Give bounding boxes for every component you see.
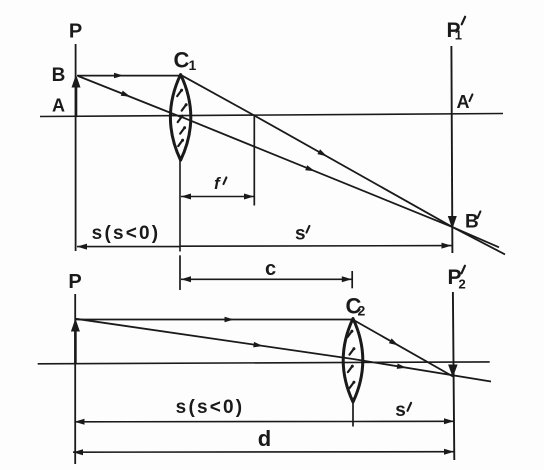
dimension line s (s<0) top <box>77 244 180 250</box>
ray 2 central segment object to lens C2 centre <box>76 319 353 359</box>
ray 2 central continuing past image point <box>353 359 491 382</box>
dimension line f-prime <box>181 194 254 200</box>
dimension line s (s<0) bottom <box>75 419 353 425</box>
image arrowhead at B2-prime (pointing down) <box>448 365 458 378</box>
svg-text:P: P <box>68 271 81 293</box>
optical axis (top diagram) <box>40 114 503 117</box>
ray 2 central segment B to lens centre (top) <box>78 76 181 117</box>
lens C1 (converging lens) <box>170 75 190 161</box>
dimension line s-prime top <box>181 243 452 249</box>
focal point tick F-prime <box>253 116 255 206</box>
image plane vertical line P1-prime <box>451 46 452 253</box>
dimension tick at lens C2 for c <box>351 271 353 288</box>
lens C2 (converging lens) <box>343 319 363 403</box>
svg-text:d: d <box>258 426 271 451</box>
svg-text:c: c <box>265 258 276 280</box>
label P1-prime <box>447 17 466 43</box>
svg-text:A: A <box>52 96 65 116</box>
svg-text:B: B <box>52 65 66 86</box>
svg-text:s: s <box>295 224 306 245</box>
svg-text:s: s <box>395 400 406 421</box>
image arrowhead at B-prime (pointing down) <box>448 216 457 229</box>
svg-text:A: A <box>457 92 470 112</box>
image plane vertical line P2-prime <box>453 292 454 460</box>
lens C1 plumb line <box>179 160 181 252</box>
dimension line d <box>73 449 454 456</box>
dimension tick at lens C1 for c <box>179 255 181 290</box>
object plane vertical line P (top) <box>75 44 77 251</box>
ray 1 parallel segment B to lens (top) <box>77 73 182 79</box>
label f-prime <box>214 174 226 193</box>
ray 2 central undeviated to image B-prime <box>181 117 499 248</box>
ray 1 refracted through focal point to image B-prime <box>181 75 505 255</box>
svg-text:1: 1 <box>455 28 462 43</box>
svg-text:s(s<0): s(s<0) <box>92 223 161 244</box>
dimension line c <box>181 276 352 282</box>
svg-text:2: 2 <box>459 277 466 292</box>
svg-text:B: B <box>465 212 479 233</box>
svg-text:2: 2 <box>358 303 366 319</box>
ray 1 parallel segment object to lens C2 <box>76 317 353 322</box>
svg-text:P: P <box>69 21 82 43</box>
lens C2 plumb line <box>352 401 354 427</box>
object arrow (bottom) <box>71 319 80 364</box>
label s-prime bottom <box>395 400 411 421</box>
ray 1 refracted to image B2-prime <box>353 320 453 377</box>
object plane vertical line P (bottom) <box>74 294 76 464</box>
optical axis (bottom diagram) <box>38 362 490 364</box>
object arrow AB (top) <box>72 75 81 116</box>
dimension line s-prime bottom <box>353 418 454 424</box>
svg-text:1: 1 <box>189 57 197 73</box>
svg-text:C: C <box>174 48 190 73</box>
label s-prime top <box>295 224 309 245</box>
svg-text:s(s<0): s(s<0) <box>176 397 245 418</box>
label P2-prime <box>448 266 466 292</box>
